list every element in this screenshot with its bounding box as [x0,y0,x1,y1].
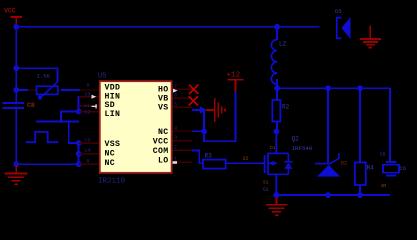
junction source node [273,192,279,198]
wire vertical from mid to VSS row [68,121,70,143]
pin numbers left [84,82,91,164]
white pin dash LO [173,161,177,164]
capacitor C8 [3,102,35,109]
crystal C6 [380,152,406,190]
svg-text:NC: NC [105,159,116,168]
svg-text:+12: +12 [227,72,241,80]
junction ground node [14,162,19,167]
white pin arrow HO right [173,89,178,93]
wire main left vertical lower [15,109,17,165]
pin numbers right [174,84,177,163]
svg-text:NC: NC [158,128,169,137]
svg-text:S1: S1 [263,180,269,186]
svg-text:D1: D1 [270,145,276,151]
power symbol +12 [227,72,244,92]
svg-text:IRF540: IRF540 [292,145,313,152]
no-connect X on pin HO [189,85,198,94]
ground sideways at VS node [206,98,226,122]
IC U5 pin stubs right [172,89,192,163]
junction mid rail at SCR branch [325,85,331,91]
power symbol VCC [4,8,22,25]
wire horizontal mid [36,121,79,123]
wire node to +12 horizontal [203,140,236,142]
wire main left vertical upper [15,27,17,103]
junction top rail inductor [274,24,280,30]
wire +12 vertical [235,92,237,143]
svg-text:5: 5 [174,102,177,108]
wire pot right terminal to VDD [61,89,80,91]
junction drain node [274,129,280,135]
wire inductor bottom stub [276,79,278,89]
wire VSS vertical chain [78,143,80,165]
potentiometer R5 value 1.5K [37,73,59,100]
svg-text:R4: R4 [367,165,375,172]
junction pot left [13,87,19,93]
junction mid rail at inductor [274,85,280,91]
svg-text:U5: U5 [98,73,106,81]
pin stub pot left [28,89,37,90]
svg-text:8: 8 [86,158,89,164]
svg-text:7: 7 [174,84,177,90]
no-connect X on pin VB [189,96,198,105]
wire inductor top stub [276,27,278,40]
junction NC2 [76,161,82,167]
inductor L2 [271,40,286,85]
svg-text:12: 12 [84,109,90,115]
IC pin names left column [105,84,121,168]
wire mid rail horizontal [276,87,390,89]
svg-text:VSS: VSS [105,140,121,149]
transistor Q2 IRF540 [256,132,313,195]
wire bottom rail [276,194,390,196]
wire R4 branch top vertical [359,88,361,163]
svg-text:9: 9 [86,82,89,88]
svg-text:VS: VS [158,104,169,113]
pin stub pot right [58,89,62,90]
svg-text:G1: G1 [263,187,269,193]
wire crystal branch top vertical [389,88,391,162]
svg-text:COM: COM [153,147,169,156]
junction VS/NC node [201,128,207,134]
ground top right [360,26,381,49]
junction at VCC node [13,24,19,30]
svg-text:R3: R3 [205,153,213,160]
wire NC row to node [192,130,204,132]
wire vertical into mid wire [60,111,62,123]
svg-text:VCC: VCC [153,138,169,147]
ground at source node [266,198,288,217]
white pin mark SD [92,104,97,108]
IC U5 IR2110 body [100,81,172,173]
svg-text:14: 14 [84,148,90,154]
resistor R3 (gate) [198,153,256,169]
resistor R2 [272,89,289,133]
svg-text:D5: D5 [335,8,342,15]
wire COM row right [192,150,200,152]
ground bottom-left [5,165,28,185]
svg-text:13: 13 [84,137,90,143]
IC pin names right column [153,85,169,165]
svg-text:HIN: HIN [105,92,121,101]
junction pot loop [13,65,19,71]
wire bottom left horizontal to VSS node [15,163,79,165]
svg-text:HO: HO [158,85,169,94]
wire pot top loop horizontal [16,67,58,69]
wire SCR branch top vertical [327,88,329,165]
svg-text:C5: C5 [380,152,386,158]
svg-text:L2: L2 [279,41,287,48]
svg-text:10: 10 [84,91,90,97]
junction bottom rail R4 [357,192,363,198]
svg-text:4M: 4M [381,183,387,189]
wire VS node vertical down [203,110,205,142]
junction bottom rail SCR [325,192,331,198]
svg-text:11: 11 [84,103,90,109]
diode D5 [335,8,351,39]
wire pot left terminal [16,89,28,91]
junction LIN node [76,109,82,115]
junction mid rail at R4 branch [357,85,363,91]
pulse source icon [26,132,59,142]
svg-text:VCC: VCC [4,8,16,15]
junction VSS [76,140,82,146]
wire top rail [15,26,319,28]
wire VS to node with arrowhead [192,106,206,114]
wire pot top loop vertical [57,67,59,82]
svg-text:6: 6 [174,93,177,99]
svg-text:LIN: LIN [105,110,121,119]
wire LIN row left segment [60,111,79,113]
svg-text:VDD: VDD [105,84,121,93]
IC U5 pin stubs left [79,89,99,165]
svg-text:D2: D2 [341,160,348,167]
svg-text:C8: C8 [27,102,35,109]
svg-text:3: 3 [174,135,177,141]
svg-text:1.5K: 1.5K [37,73,51,80]
wire HIN vertical [78,96,80,112]
svg-text:2: 2 [174,145,177,151]
svg-text:C6: C6 [400,165,407,172]
wire COM down to gate resistor [198,150,200,165]
junction NC1 [76,151,82,157]
svg-text:22: 22 [243,156,249,162]
svg-text:SD: SD [105,101,116,110]
svg-text:4: 4 [174,126,177,132]
svg-text:NC: NC [105,150,116,159]
svg-text:LO: LO [158,157,169,166]
resistor R4 [355,162,374,195]
wire jog to VSS junction [68,142,79,144]
svg-text:R2: R2 [282,104,290,111]
white pin arrow HIN [92,95,97,99]
svg-text:Q2: Q2 [292,136,300,143]
svg-text:IR2110: IR2110 [98,178,126,186]
thyristor D2 [315,153,347,177]
svg-text:VB: VB [158,94,169,103]
